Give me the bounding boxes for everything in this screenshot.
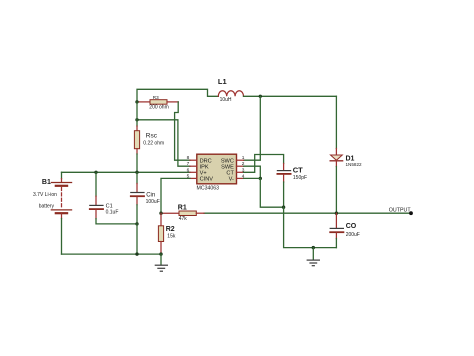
node dot C1 top [94, 171, 97, 174]
svg-text:R1: R1 [178, 204, 187, 211]
svg-text:3.7V Li-ion: 3.7V Li-ion [33, 192, 57, 198]
svg-text:0.22 ohm: 0.22 ohm [143, 140, 164, 146]
resistor R2 [158, 213, 163, 254]
battery B1 [51, 172, 71, 254]
node OUTPUT terminal [409, 211, 413, 215]
wire top rail left (battery+ node to L1) [137, 89, 218, 101]
node dot CT bottom / V- net [282, 206, 285, 209]
svg-text:CT: CT [293, 166, 303, 175]
wire bottom ground rail (battery- to R2) [62, 253, 162, 255]
svg-text:10uH: 10uH [220, 97, 232, 103]
inductor L1 [218, 91, 243, 97]
ground symbol left [155, 254, 167, 271]
svg-text:Cin: Cin [146, 192, 155, 198]
wire IPK rail (left column to pin 7) [137, 120, 190, 166]
wire CT pin 3 to CT cap top [244, 155, 284, 173]
wire CT ground net down to ground rail [284, 207, 337, 247]
node dot R1/R2/CINV junction [159, 212, 162, 215]
ground symbol right [307, 248, 319, 266]
diode D1 [330, 149, 342, 167]
svg-text:Rsc: Rsc [146, 133, 158, 140]
wire left column between dots [136, 102, 138, 126]
svg-text:7: 7 [187, 161, 190, 167]
IC pin stubs left [190, 160, 197, 178]
IC pin stubs right [237, 160, 244, 178]
resistor R3 [138, 100, 178, 105]
svg-text:CINV: CINV [200, 177, 214, 183]
svg-text:1: 1 [242, 155, 245, 161]
wire Cin bottom to ground rail [136, 224, 138, 254]
capacitor Cin [131, 172, 144, 224]
svg-text:200 ohm: 200 ohm [149, 105, 168, 111]
wire D1 top stub [335, 96, 337, 148]
svg-text:battery: battery [39, 203, 55, 209]
wire output rail [204, 212, 411, 214]
wire V+ rail (battery to pin 6) [62, 171, 191, 173]
svg-text:1N5822: 1N5822 [346, 162, 363, 167]
node junction L1/D1/SWC [259, 95, 262, 98]
capacitor C1 [90, 172, 137, 224]
capacitor CT [277, 164, 290, 208]
wire D1 bottom to output rail [335, 167, 337, 214]
svg-text:MC34063: MC34063 [197, 185, 220, 191]
svg-text:47k: 47k [179, 216, 188, 222]
node dot R3 left [135, 100, 138, 103]
node dot output rail / D1 / CO [335, 212, 338, 215]
resistor Rsc [134, 126, 139, 154]
svg-text:CT: CT [226, 170, 234, 176]
node dot right ground [312, 246, 315, 249]
svg-text:0.1uF: 0.1uF [106, 209, 119, 215]
node dot bottom rail Cin column [135, 252, 138, 255]
svg-text:200uF: 200uF [346, 232, 360, 238]
svg-text:B1: B1 [42, 179, 51, 186]
svg-text:SWE: SWE [221, 164, 234, 170]
wire CINV pin 5 to feedback node [161, 178, 190, 213]
svg-text:150pF: 150pF [293, 175, 307, 181]
svg-text:6: 6 [187, 167, 190, 173]
node dot bottom rail R2 [159, 252, 162, 255]
svg-text:R3: R3 [153, 95, 159, 100]
svg-text:15k: 15k [167, 234, 176, 240]
node dot C1/Cin bottom [135, 222, 138, 225]
svg-text:8: 8 [187, 155, 190, 161]
wire R3 to pin 8 DRC (jog) [175, 102, 190, 160]
svg-text:100uF: 100uF [146, 199, 160, 205]
svg-text:V+: V+ [200, 170, 207, 176]
resistor R1 [162, 211, 204, 216]
capacitor CO [330, 213, 343, 247]
node dot pin4 V- junction [259, 177, 262, 180]
node dot Rsc/Cin column [135, 171, 138, 174]
IC U1 MC34063 body [197, 154, 237, 184]
svg-text:CO: CO [346, 223, 357, 230]
wire SWC vertical (junction to pin 1) [244, 96, 261, 160]
wire SWE pin 2 to ground node [244, 166, 261, 178]
wire L1 to D1 top rail [244, 95, 337, 97]
svg-text:V-: V- [229, 177, 234, 183]
wire V- pin 4 ground net [244, 178, 284, 207]
svg-text:R2: R2 [166, 226, 175, 233]
svg-text:L1: L1 [218, 77, 227, 86]
node dot IPK rail [135, 118, 138, 121]
svg-text:IPK: IPK [200, 164, 209, 170]
svg-text:OUTPUT: OUTPUT [389, 208, 412, 214]
wire Rsc bottom to V+ rail [136, 154, 138, 172]
